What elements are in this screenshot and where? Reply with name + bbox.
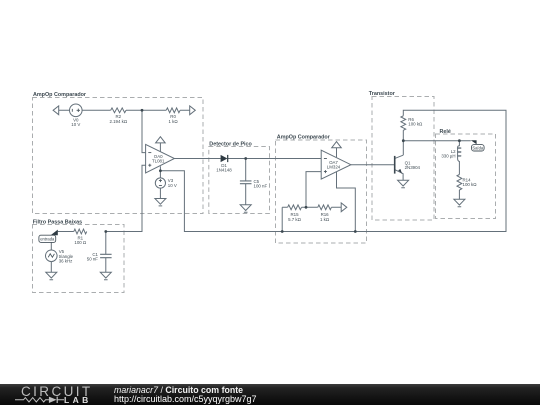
svg-text:TL081: TL081 xyxy=(152,159,165,164)
svg-text:10 V: 10 V xyxy=(71,122,80,127)
svg-text:1N4148: 1N4148 xyxy=(216,167,232,172)
svg-text:Transistor: Transistor xyxy=(369,91,396,97)
svg-text:100 kΩ: 100 kΩ xyxy=(463,182,478,187)
svg-text:Saída: Saída xyxy=(472,145,484,150)
svg-text:5.7 kΩ: 5.7 kΩ xyxy=(288,217,302,222)
svg-text:1 kΩ: 1 kΩ xyxy=(320,217,330,222)
svg-text:Detector de Pico: Detector de Pico xyxy=(209,142,252,148)
svg-text:2N3904: 2N3904 xyxy=(405,165,421,170)
svg-text:10 V: 10 V xyxy=(168,183,177,188)
svg-text:1 kΩ: 1 kΩ xyxy=(169,119,179,124)
svg-text:330 µH: 330 µH xyxy=(441,154,455,159)
svg-text:100 Ω: 100 Ω xyxy=(74,240,87,245)
svg-text:Filtro Passa Baixas: Filtro Passa Baixas xyxy=(33,219,82,225)
svg-text:entrada: entrada xyxy=(40,236,55,241)
svg-text:36 kHz: 36 kHz xyxy=(59,258,73,263)
svg-text:Relé: Relé xyxy=(440,129,451,135)
svg-text:AmpOp Comparador: AmpOp Comparador xyxy=(33,92,87,98)
svg-text:2.194 kΩ: 2.194 kΩ xyxy=(109,119,127,124)
svg-text:LM324: LM324 xyxy=(327,164,341,169)
svg-text:100 kΩ: 100 kΩ xyxy=(408,122,423,127)
svg-text:AmpOp Comparador: AmpOp Comparador xyxy=(277,135,331,141)
svg-text:50 nF: 50 nF xyxy=(87,256,99,261)
svg-text:100 nF: 100 nF xyxy=(254,184,268,189)
